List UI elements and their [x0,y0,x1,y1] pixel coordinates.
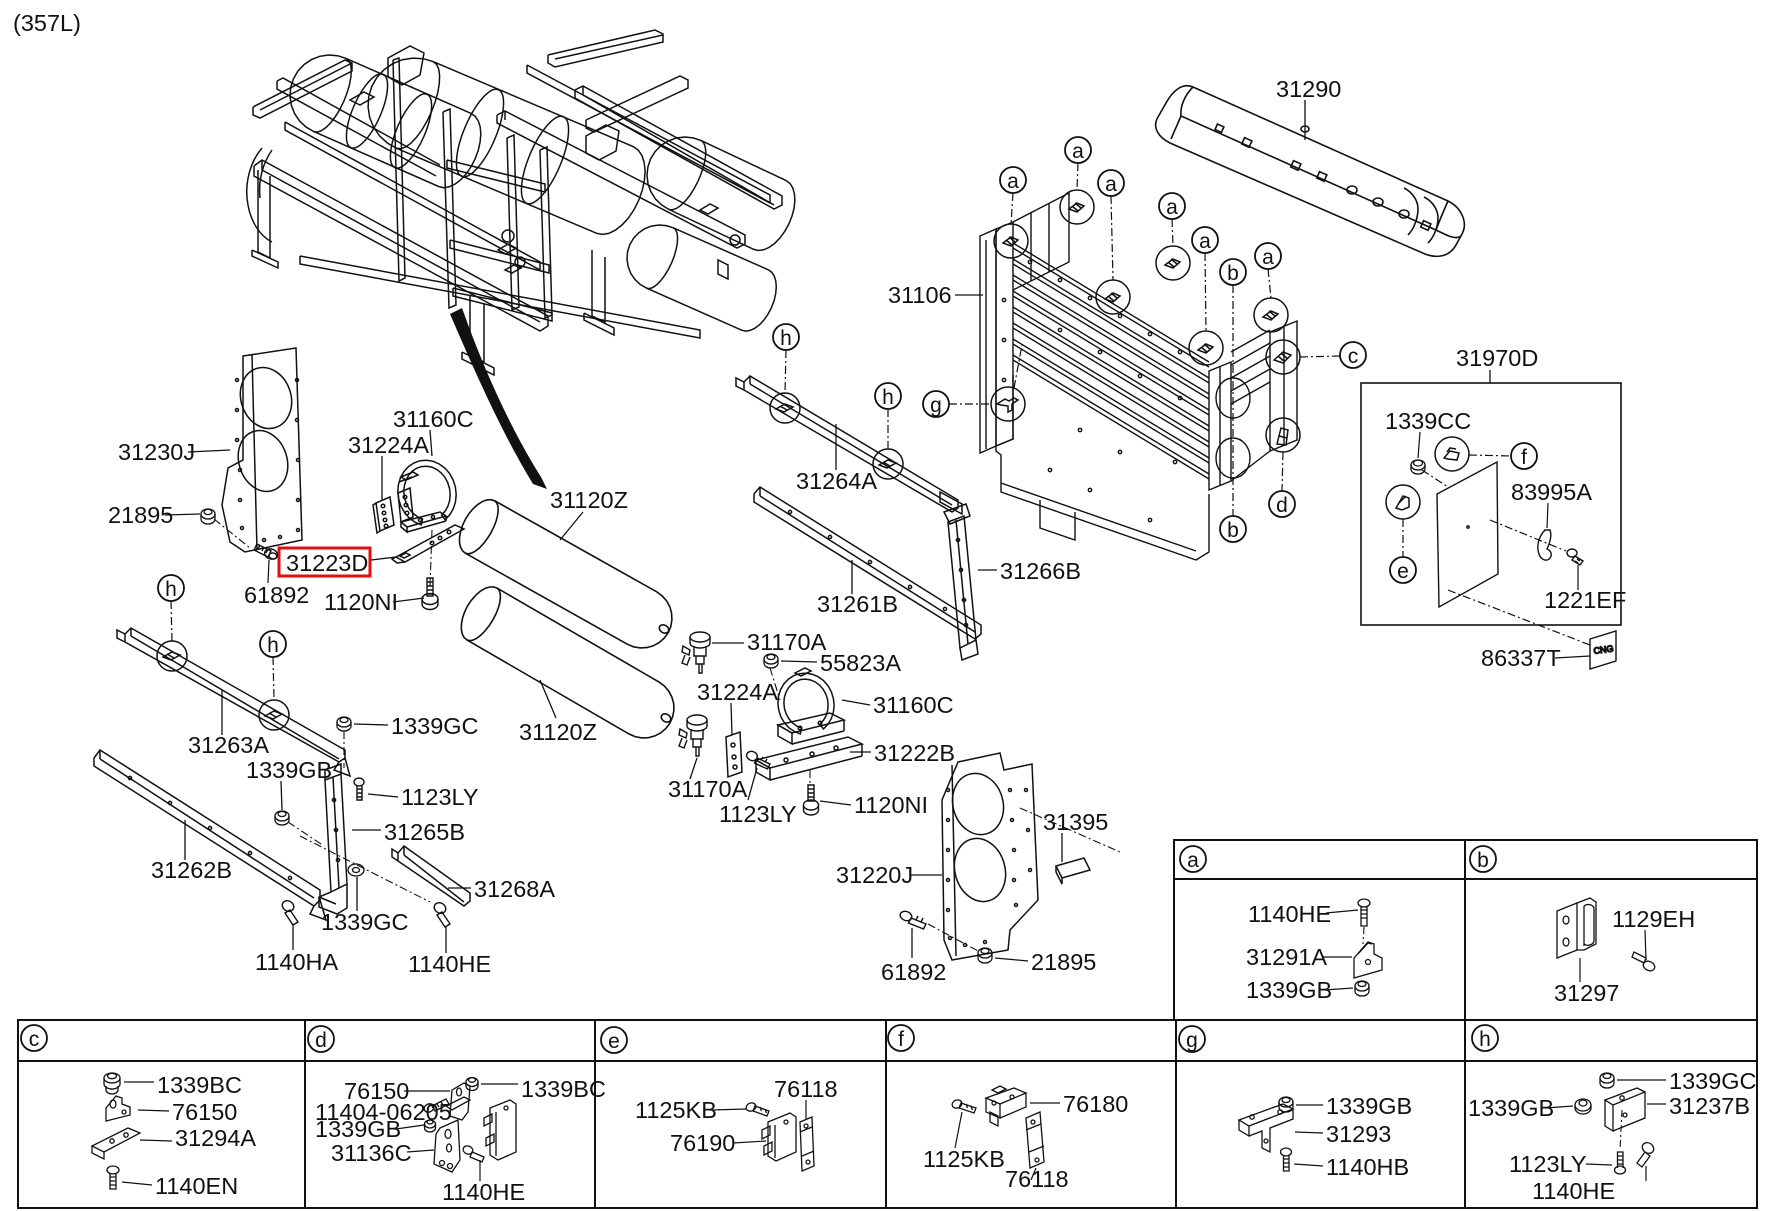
table cdefgh frame [18,1020,1757,1208]
leader 76150 d [404,1090,450,1092]
leader 1140HA [292,924,294,950]
dashdot a5 [1205,253,1206,331]
svg-text:1221EF: 1221EF [1544,587,1626,613]
svg-text:1140HE: 1140HE [1532,1178,1615,1204]
svg-text:76180: 76180 [1063,1091,1128,1117]
leader 31291A a [1322,956,1352,958]
balloon g [923,391,949,417]
leader 31230J [188,450,230,452]
svg-text:a: a [1072,140,1084,163]
svg-text:31160C: 31160C [873,692,954,718]
svg-text:(357L): (357L) [13,10,81,36]
balloon b2 [1220,516,1246,542]
balloon h2 [260,631,286,657]
leader 31294A c [140,1140,172,1141]
svg-text:a: a [1105,173,1117,196]
rail 31264A [736,376,962,514]
balloon a3 [1098,170,1124,196]
part 31290 cover [1156,86,1465,257]
bolt 1120NI bottom [804,785,819,815]
dashdot g-target up [1014,345,1022,388]
leader 31222B [850,751,871,753]
bolt 1120NI top [422,578,438,610]
balloon a5 [1192,227,1218,253]
svg-text:31262B: 31262B [151,857,232,883]
CNG plate 86337T [1590,631,1616,669]
right rail upper [575,86,782,209]
svg-text:1123LY: 1123LY [1509,1151,1587,1177]
leader 31297 b [1579,958,1581,982]
clamp 31160C bottom [778,668,844,744]
balloon d [1269,491,1295,517]
svg-text:31266B: 31266B [1000,558,1081,584]
svg-text:31120Z: 31120Z [519,719,597,745]
clamp 31160C top [398,460,456,532]
leader 1221EF [1577,565,1579,590]
svg-text:31264A: 31264A [796,468,877,494]
hook 83995A [1538,530,1551,560]
detail circle g-target bracket [991,387,1025,421]
balloon a2 [1065,137,1091,163]
detail circle rail3 [157,641,187,671]
detail circle rail4 [259,700,289,730]
icon nut 1339GB (cell d) [425,1120,436,1132]
svg-text:76118: 76118 [1005,1166,1069,1192]
leader 1339GB h [1546,1106,1573,1108]
svg-text:a: a [1199,230,1211,253]
leader 31237B h [1647,1103,1666,1105]
svg-text:1140HE: 1140HE [1248,901,1331,927]
nut 21895 bottom [978,948,992,963]
rail 31266B vertical [944,504,978,660]
dashdot plate to screw [1490,520,1566,551]
leader 61892 top [268,560,269,583]
tank saddle brackets [388,46,424,85]
leader 1120NI bottom [820,801,851,805]
dashdot 31222B down [809,770,811,786]
svg-text:31294A: 31294A [175,1125,256,1151]
svg-text:1129EH: 1129EH [1612,906,1695,932]
leader 31160C bottom [842,700,870,705]
svg-text:31268A: 31268A [474,876,555,902]
icon bolt 1123LY (cell h) [1615,1152,1626,1174]
header balloon d [308,1026,334,1052]
dashdot a3 [1111,196,1113,280]
leader 1140HE h [1645,1166,1647,1181]
detail circle p4 [1156,246,1190,280]
svg-text:31230J: 31230J [118,439,195,465]
leader 31120Z top [560,512,583,540]
post 31265B [319,764,347,914]
svg-text:31297: 31297 [1554,980,1619,1006]
leader 31224A bottom [731,703,732,735]
dashdot 61892 to panel corner [928,924,980,952]
icon bracket 31294A (cell c) [92,1128,140,1159]
icon bracket 31291A (cell a) [1354,942,1382,978]
bracket 31222B [756,737,862,780]
balloon a1 [1000,167,1026,193]
svg-text:31136C: 31136C [331,1140,412,1166]
leader 61892 bottom [911,928,913,958]
leader 1339GB left [281,781,282,810]
svg-text:31170A: 31170A [747,629,827,655]
part 31230J bracket panel [222,348,302,552]
svg-text:1120NI: 1120NI [324,589,398,615]
svg-text:31160C: 31160C [393,406,474,432]
svg-text:e: e [608,1030,620,1053]
icon bolt 1140HE (cell d) [462,1145,484,1162]
svg-text:86337T: 86337T [1481,645,1561,671]
balloon h1 [158,575,184,601]
balloon f [1511,443,1537,469]
icon bolt 1140HE (cell a) [1358,899,1370,926]
svg-text:1339CC: 1339CC [1385,408,1471,434]
leader 31268A [448,887,471,889]
balloon e [1390,557,1416,583]
svg-text:31293: 31293 [1326,1121,1391,1147]
icon bolt 1140EN (cell c) [107,1166,119,1189]
header balloon g [1179,1026,1205,1052]
icon washer 1339GB (cell h) [1575,1099,1591,1114]
screw 1221EF [1567,549,1583,565]
svg-text:31261B: 31261B [817,591,898,617]
balloon b1 [1220,259,1246,285]
svg-text:21895: 21895 [1031,949,1096,975]
svg-text:1339BC: 1339BC [157,1072,242,1098]
balloon h4 [875,383,901,409]
leader red box to strap [371,557,396,560]
svg-text:h: h [165,578,177,601]
svg-text:1339GC: 1339GC [391,713,479,739]
bolt 1123LY left [354,778,364,800]
leader 1120NI top [393,598,424,602]
leader 1339GB g [1296,1104,1323,1106]
icon relay box (cell d) [484,1100,516,1160]
svg-text:1339GB: 1339GB [246,757,332,783]
leader 31160C top [430,430,432,456]
right bottom I-beam [592,250,605,322]
svg-text:31106: 31106 [888,282,952,308]
bolt 1140HE mid [432,901,450,927]
leader 76190 e [733,1141,766,1143]
part 31220J bracket panel [942,753,1038,960]
bolt 61892 bottom [899,910,926,929]
svg-text:76190: 76190 [670,1130,735,1156]
icon bolt 1125KB (cell e) [745,1102,769,1116]
leader 1140HE a [1326,910,1358,913]
svg-text:31970D: 31970D [1456,345,1538,371]
leader 31970D [1489,370,1491,383]
icon bolt 1129EH (cell b) [1632,952,1656,973]
svg-text:f: f [1521,446,1527,469]
dashdot h4 [887,409,889,449]
svg-text:g: g [930,394,942,417]
dashdot a4 [1172,219,1173,246]
svg-text:1123LY: 1123LY [401,784,479,810]
svg-text:31223D: 31223D [286,550,368,576]
svg-text:e: e [1397,560,1409,583]
dashdot plate to CNG label [1448,590,1590,645]
svg-text:g: g [1186,1029,1198,1052]
leader 1339GC h [1617,1079,1666,1081]
bolt 1123LY center [745,750,770,769]
dashdot d [1282,452,1283,491]
leader 31106 [955,294,983,296]
svg-text:1125KB: 1125KB [923,1146,1005,1172]
svg-text:1140HB: 1140HB [1326,1154,1409,1180]
leader 1129EH b [1645,930,1646,960]
svg-text:55823A: 55823A [820,650,901,676]
leader 76118 e [805,1100,807,1120]
header balloon b [1470,846,1496,872]
detail circle p1 [994,224,1028,258]
dashdot c [1300,356,1340,357]
rail 31268A [392,846,470,906]
rail 31262B [94,750,326,920]
svg-text:61892: 61892 [881,959,946,985]
bottom cross rail [300,256,700,338]
svg-text:31237B: 31237B [1669,1093,1750,1119]
leader 31263A [221,690,223,735]
icon bolt 1140HB (cell g) [1281,1148,1292,1171]
dashdot strap to bolt [430,530,432,586]
svg-text:21895: 21895 [108,502,173,528]
tank lower-left partial [247,148,272,242]
leader 1140HE mid [445,926,447,953]
dashdot washer line [300,836,430,902]
header balloon f [888,1025,914,1051]
leader 31293 g [1295,1132,1323,1133]
dashdot 1339GC down [343,731,345,768]
icon nut 1339GB (cell g) [1279,1097,1293,1112]
leader 55823A [781,661,817,662]
leader 1140HE d [479,1160,481,1181]
svg-text:1339GC: 1339GC [1669,1068,1757,1094]
icon strip 76118 (cell f) [1026,1112,1044,1168]
dashdot h2 [273,657,274,700]
bolt 1140HA [280,899,298,925]
svg-text:1339GB: 1339GB [1246,977,1332,1003]
nut 1339GB left [275,811,289,825]
extra beam left mid [285,122,540,270]
leader 31224A top [381,456,383,500]
detail circle p2 [1060,190,1094,224]
cross member right [586,76,688,132]
svg-text:a: a [1262,246,1274,269]
dashdot 55823A to clamp [770,668,780,700]
svg-text:1140HA: 1140HA [255,949,339,975]
part 31106 panel [980,193,1297,560]
svg-text:c: c [1348,345,1359,368]
tank 31120Z upper [460,500,672,648]
plate 31224A bottom [726,732,742,777]
leader 76150 c [138,1110,169,1111]
rack horizontals [447,160,545,192]
header balloon h [1472,1025,1498,1051]
tank T1 rings [382,89,440,174]
svg-text:1120NI: 1120NI [854,792,928,818]
plate 31224A top [373,497,394,533]
leader 31120Z bottom [540,680,556,718]
leader 76118 f [1031,1168,1036,1180]
svg-text:b: b [1227,519,1239,542]
svg-text:76150: 76150 [172,1099,237,1125]
svg-text:31220J: 31220J [836,862,913,888]
icon strip 76118 (cell e) [800,1117,814,1171]
svg-text:1123LY: 1123LY [719,801,797,827]
leader 1125KB f [955,1112,962,1148]
tank T3 rings [512,110,578,209]
rail left lower [254,160,548,331]
header balloon e [601,1027,627,1053]
icon relay 76190 (cell e) [762,1113,796,1161]
detail circle p5 [1189,331,1223,365]
small details right [700,204,718,214]
box 31970D frame [1361,383,1621,625]
svg-text:h: h [882,386,894,409]
leader 76180 f [1030,1102,1060,1104]
rail 31261B [754,487,981,639]
leader 31261B [851,560,853,594]
svg-text:61892: 61892 [244,582,309,608]
icon L bracket 31136C (cell d) [434,1120,460,1172]
leader 1123LY left [368,794,398,797]
leader 31136C d [407,1150,434,1152]
detail circle rail2 [873,449,903,479]
dashdot h1 [171,601,172,641]
mid bottom I-beam [470,296,484,362]
detail circle grommet (e target) [1386,485,1420,519]
tank upper-left [290,55,481,188]
strap 31223D part [392,525,464,563]
table ab frame [1174,840,1757,1020]
detail circle p6 [1254,298,1288,332]
rail 31263A [117,628,350,776]
valve 31170A bottom [679,715,707,756]
detail circle rail1 [770,393,800,423]
header balloon c [21,1025,47,1051]
svg-text:31120Z: 31120Z [550,487,628,513]
svg-text:d: d [315,1029,327,1052]
dashdot nut to plate [1422,470,1448,487]
plate door panel 31970D [1437,462,1498,607]
icon bracket 31237B (cell h) [1605,1088,1645,1131]
svg-text:1140EN: 1140EN [155,1173,238,1199]
svg-text:a: a [1007,170,1019,193]
svg-text:b: b [1477,849,1489,872]
dashdot a1 [1011,193,1013,224]
tank right [647,137,795,251]
svg-text:31290: 31290 [1276,76,1341,102]
icon bracket 76150 (cell d) [446,1083,470,1120]
leader 83995A [1547,503,1548,528]
leader 1123LY center [748,768,757,800]
dashdot 21895 to panel [214,519,250,548]
left I-beam foot [258,170,270,258]
svg-text:h: h [780,327,792,350]
svg-text:c: c [29,1028,40,1051]
leader 31266B [978,569,997,571]
icon nut 1339BC (cell d) [466,1078,478,1091]
header balloon a [1180,846,1206,872]
svg-text:83995A: 83995A [1511,479,1592,505]
leader 1339GB d [396,1125,424,1129]
leader 21895 [165,514,200,515]
central tank [368,58,645,234]
red box 31223D [279,548,370,576]
leader 31262B [184,820,186,860]
leader 31170A right [712,642,744,644]
balloon a6 [1255,243,1281,269]
icon bolt 1125KB (cell f) [951,1099,976,1113]
tank right-lower [627,225,776,331]
svg-text:a: a [1187,849,1199,872]
leader 31170A bottom [690,758,697,779]
svg-text:f: f [898,1028,904,1051]
nut 21895 [201,509,215,524]
icon bracket assy 76180 (cell f) [986,1086,1026,1126]
leader 1339GB a [1324,988,1353,990]
right rail mid [497,111,745,248]
svg-text:1140HE: 1140HE [408,951,491,977]
leader 1140HB g [1294,1164,1323,1166]
dashdot b1-b2 [1232,285,1234,516]
top right beam [548,30,663,67]
tank 31120Z lower [461,587,674,738]
bolt 61892 top [254,544,279,561]
dashdot a2 [1077,163,1078,190]
svg-text:1339BC: 1339BC [521,1076,606,1102]
svg-text:1125KB: 1125KB [635,1097,717,1123]
washer 1339GC bottom [348,864,364,876]
icon hinge 31297 (cell b) [1557,898,1596,958]
icon nut 1339GB (cell a) [1355,981,1369,996]
svg-text:1339GB: 1339GB [1326,1093,1412,1119]
dashdot panel to 31395 [1020,808,1120,852]
plate 31395 [1056,858,1090,884]
chassis frame assembly [247,30,795,375]
svg-text:d: d [1276,494,1288,517]
svg-text:31224A: 31224A [697,679,778,705]
detail circle p3 [1096,280,1130,314]
svg-text:a: a [1166,196,1178,219]
svg-text:h: h [267,634,279,657]
balloon c right [1340,342,1366,368]
leader 1339GC bottom [356,877,358,911]
svg-text:31263A: 31263A [188,732,269,758]
leader 86337T [1555,656,1590,658]
nut 1339CC [1411,460,1425,474]
svg-text:1339GB: 1339GB [315,1116,401,1142]
icon bracket 31293 (cell g) [1239,1104,1293,1152]
left top beam [253,60,352,118]
leader 21895 bottom [995,958,1028,961]
svg-text:h: h [1479,1028,1491,1051]
arrow swoosh to tanks [450,308,547,489]
balloon a4 [1159,193,1185,219]
dashdot grommet to e [1402,519,1404,557]
valve 31170A right [682,632,710,673]
svg-text:31291A: 31291A [1246,944,1327,970]
rack fittings [502,230,514,242]
dashdot 1339GB to post [288,822,324,846]
leader 31264A [835,424,837,470]
leader 1140EN c [122,1182,152,1185]
svg-text:31224A: 31224A [348,432,429,458]
nut 1339GC top [337,717,351,731]
dashdot bolt-bracket-nut a [1363,927,1364,944]
extra beam right top [527,65,770,203]
